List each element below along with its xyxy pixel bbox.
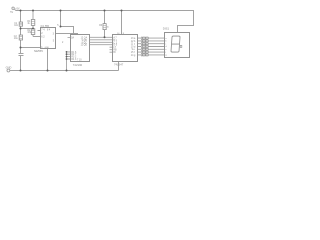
- svg-text:1k: 1k: [27, 23, 30, 25]
- svg-text:7 10: 7 10: [77, 60, 82, 62]
- svg-text:12 b: 12 b: [131, 41, 136, 43]
- svg-text:NE555: NE555: [34, 49, 43, 53]
- svg-text:5: 5: [57, 25, 59, 27]
- svg-text:74LS90: 74LS90: [73, 63, 83, 67]
- svg-text:R3: R3: [99, 25, 103, 27]
- svg-text:2: 2: [62, 42, 64, 44]
- svg-text:10 d: 10 d: [131, 46, 136, 48]
- svg-text:1k: 1k: [107, 27, 110, 29]
- svg-text:14 g: 14 g: [131, 55, 136, 57]
- svg-text:10n: 10n: [14, 25, 19, 27]
- svg-text:GND: GND: [6, 65, 12, 69]
- svg-text:13 a: 13 a: [131, 38, 136, 40]
- svg-text:IC1 555: IC1 555: [41, 25, 50, 28]
- svg-text:GND: GND: [45, 47, 50, 49]
- svg-text:10u: 10u: [14, 38, 19, 40]
- svg-text:5V: 5V: [10, 12, 13, 14]
- svg-text:11 QD: 11 QD: [81, 45, 88, 47]
- svg-text:c: c: [165, 43, 166, 45]
- svg-text:DIS1: DIS1: [163, 26, 170, 30]
- svg-text:BI: BI: [113, 52, 116, 54]
- svg-text:74LS47: 74LS47: [114, 62, 124, 66]
- svg-text:+5V: +5V: [15, 8, 20, 11]
- svg-text:15 f: 15 f: [131, 52, 135, 54]
